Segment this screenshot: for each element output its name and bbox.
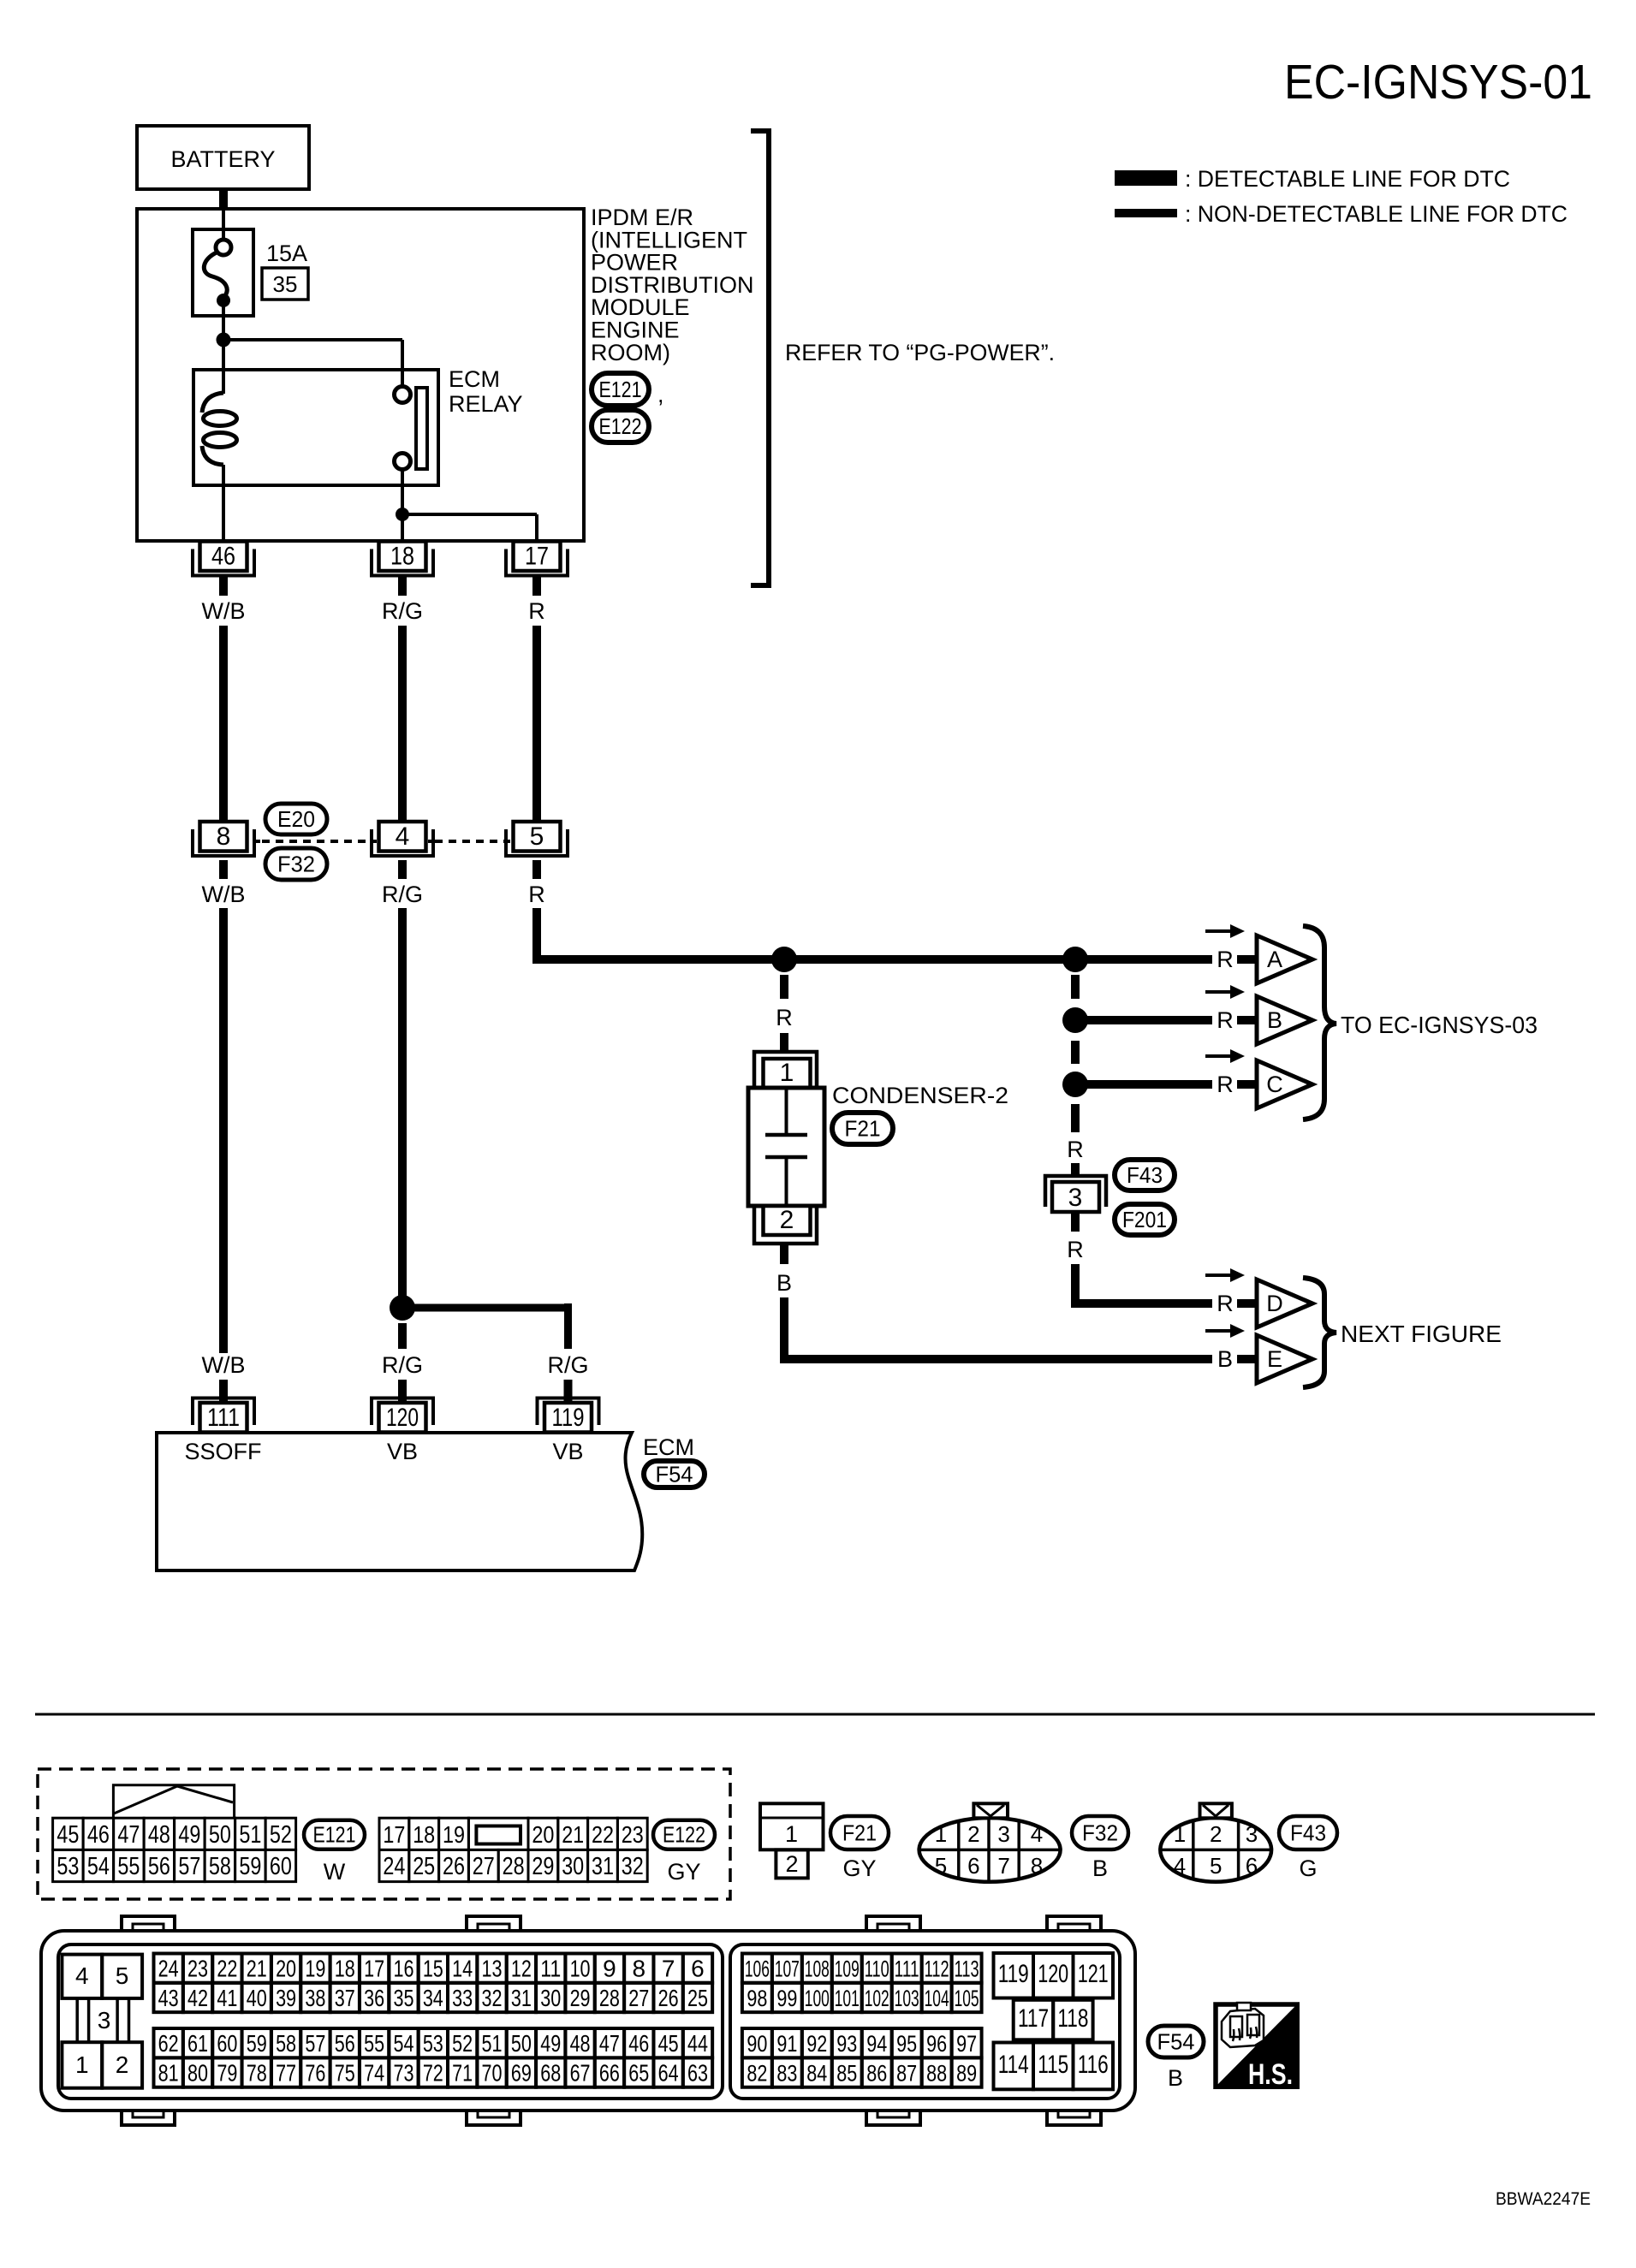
svg-text:17: 17 (525, 543, 549, 571)
brace to EC-IGNSYS-03 (1303, 926, 1336, 1119)
svg-text:32: 32 (622, 1853, 644, 1880)
svg-text:46: 46 (211, 543, 235, 571)
svg-text:54: 54 (87, 1853, 110, 1880)
svg-text:21: 21 (247, 1956, 267, 1982)
svg-text:31: 31 (592, 1853, 614, 1880)
svg-text:R/G: R/G (382, 882, 423, 907)
svg-text:46: 46 (628, 2030, 649, 2057)
svg-text:R: R (1217, 1291, 1234, 1316)
svg-text:115: 115 (1038, 2051, 1068, 2079)
wire dash R bus to node B (1071, 975, 1080, 999)
svg-text:F54: F54 (656, 1462, 693, 1487)
wire W/B pin46 to connector E20-8 (219, 626, 228, 822)
connector label E121 (304, 1820, 365, 1849)
svg-text:116: 116 (1078, 2051, 1109, 2079)
svg-text:F32: F32 (277, 852, 315, 877)
connector label F32 (265, 848, 327, 880)
relay contact top terminal (395, 387, 411, 403)
pin 17 of IPDM (506, 549, 568, 576)
svg-text:72: 72 (423, 2060, 443, 2087)
svg-text:2: 2 (1210, 1821, 1222, 1847)
svg-text:3: 3 (1068, 1184, 1083, 1212)
svg-text:2: 2 (785, 1851, 798, 1877)
connector label E122 (653, 1820, 715, 1849)
junction node R/G split (390, 1295, 415, 1321)
svg-text:W: W (324, 1859, 346, 1885)
svg-text:27: 27 (473, 1853, 495, 1880)
junction node B branch (1062, 1007, 1088, 1033)
wire coil to pin 46 (222, 465, 225, 542)
dashed connector linkage 8-4 (255, 840, 260, 843)
svg-text:20: 20 (532, 1821, 554, 1848)
svg-text:35: 35 (273, 271, 298, 297)
svg-text:41: 41 (217, 1985, 237, 2011)
svg-text:7: 7 (997, 1853, 1009, 1879)
svg-text:58: 58 (209, 1853, 231, 1880)
wire down to relay contact (401, 340, 404, 388)
svg-text:20: 20 (276, 1956, 296, 1982)
svg-text:G: G (1299, 1855, 1317, 1881)
svg-text:4: 4 (1174, 1853, 1186, 1879)
svg-text:78: 78 (247, 2060, 267, 2087)
svg-text:ECM: ECM (643, 1434, 694, 1460)
F43 keyway notch (1200, 1803, 1232, 1818)
wire junction to relay contact (horizontal) (223, 338, 402, 341)
svg-text:59: 59 (247, 2030, 267, 2057)
svg-text:W/B: W/B (202, 882, 246, 907)
wire stub into ECM pin (219, 1380, 228, 1404)
svg-text:ECM: ECM (449, 366, 500, 392)
ECM connector inner housing right (730, 1944, 1120, 2099)
svg-text:80: 80 (187, 2060, 208, 2087)
relay coil (202, 393, 223, 413)
svg-text:81: 81 (158, 2060, 179, 2087)
svg-text:75: 75 (335, 2060, 355, 2087)
svg-text:B: B (1267, 1007, 1282, 1033)
svg-text:R: R (1217, 947, 1234, 972)
svg-text:32: 32 (482, 1985, 503, 2011)
svg-text:R/G: R/G (547, 1352, 588, 1378)
svg-text:63: 63 (687, 2060, 708, 2087)
wire dash node C down (1071, 1104, 1080, 1132)
svg-text:28: 28 (503, 1853, 525, 1880)
wire R/G pin18 to connector E20-4 (398, 626, 407, 822)
dashed connector linkage 4-5 (428, 840, 433, 843)
svg-text:8: 8 (632, 1956, 645, 1982)
svg-text:35: 35 (393, 1985, 413, 2011)
svg-text:120: 120 (386, 1404, 419, 1432)
svg-text:28: 28 (599, 1985, 620, 2011)
svg-text:26: 26 (658, 1985, 679, 2011)
svg-text:26: 26 (443, 1853, 465, 1880)
svg-text:1: 1 (75, 2051, 89, 2078)
svg-text:F21: F21 (842, 1820, 877, 1846)
wire R bus to condenser (dash) (780, 975, 788, 999)
wire R pin3 to D arrow (1071, 1264, 1080, 1308)
bracket for PG-POWER reference (751, 131, 769, 585)
svg-text:2: 2 (967, 1821, 979, 1847)
svg-text:36: 36 (364, 1985, 384, 2011)
pin 8 of E20/F32 (193, 829, 254, 856)
housing tab bottom (1047, 2109, 1101, 2125)
svg-text:TO EC-IGNSYS-03: TO EC-IGNSYS-03 (1341, 1012, 1538, 1038)
svg-text:19: 19 (305, 1956, 325, 1982)
svg-text:VB: VB (552, 1439, 583, 1464)
wire stub below pin (219, 576, 228, 596)
svg-text:25: 25 (413, 1853, 435, 1880)
svg-text:62: 62 (158, 2030, 179, 2057)
svg-text:29: 29 (570, 1985, 591, 2011)
svg-text:9: 9 (603, 1956, 616, 1982)
svg-text:85: 85 (836, 2061, 857, 2087)
housing tab bottom (122, 2109, 175, 2125)
svg-text:14: 14 (452, 1956, 473, 1982)
svg-text:73: 73 (393, 2060, 413, 2087)
svg-text:105: 105 (955, 1986, 979, 2011)
svg-text:89: 89 (956, 2061, 977, 2087)
svg-text:NEXT FIGURE: NEXT FIGURE (1341, 1321, 1502, 1347)
wire dash node B to node C (1071, 1041, 1080, 1064)
svg-text:45: 45 (57, 1821, 79, 1849)
relay contact bottom terminal (395, 454, 411, 470)
svg-text:59: 59 (239, 1853, 261, 1880)
fuse 15A (box 35) (193, 229, 253, 316)
svg-text:F54: F54 (1157, 2029, 1195, 2055)
svg-text:108: 108 (805, 1956, 830, 1982)
housing tab top (467, 1916, 521, 1933)
wire stub below condenser (780, 1244, 788, 1264)
wire stub below connector (219, 860, 228, 879)
connector label F201 (1115, 1204, 1175, 1235)
wire IPDM top to fuse (222, 209, 225, 243)
svg-text:23: 23 (622, 1821, 644, 1848)
svg-text:22: 22 (592, 1821, 614, 1848)
svg-text:12: 12 (511, 1956, 532, 1982)
junction node R bus / branch (1062, 947, 1088, 972)
svg-text:70: 70 (482, 2060, 503, 2087)
svg-text:34: 34 (423, 1985, 443, 2011)
connector label E122 (592, 410, 649, 442)
svg-text:3: 3 (1246, 1821, 1258, 1847)
svg-text:2: 2 (780, 1206, 794, 1234)
housing tab bottom (467, 2109, 521, 2125)
pin 111 of ECM (193, 1398, 254, 1426)
svg-text:F43: F43 (1127, 1162, 1163, 1188)
wire B condenser to E arrow (780, 1297, 788, 1363)
svg-text:B: B (776, 1270, 792, 1296)
svg-text:7: 7 (662, 1956, 675, 1982)
svg-text:74: 74 (364, 2060, 384, 2087)
svg-text:84: 84 (806, 2061, 827, 2087)
svg-text:92: 92 (806, 2031, 827, 2057)
svg-text:24: 24 (158, 1956, 179, 1982)
svg-text:79: 79 (217, 2060, 237, 2087)
pin 46 of IPDM (193, 549, 254, 576)
wire fuse to relay coil (222, 300, 225, 394)
pin 4 of E20/F32 (372, 829, 433, 856)
wire stub below connector (398, 860, 407, 879)
svg-text:5: 5 (1210, 1853, 1222, 1879)
svg-text:D: D (1266, 1291, 1283, 1316)
connector label F21 (830, 1816, 889, 1849)
wire R node C to arrow C (1086, 1080, 1212, 1089)
svg-text:50: 50 (209, 1821, 231, 1849)
svg-text:25: 25 (687, 1985, 708, 2011)
svg-text:GY: GY (667, 1859, 700, 1885)
svg-text:39: 39 (276, 1985, 296, 2011)
housing tab top (1047, 1916, 1101, 1933)
svg-text:119: 119 (552, 1404, 585, 1432)
IPDM E/R module box (137, 209, 584, 541)
svg-text:21: 21 (562, 1821, 584, 1848)
svg-text:100: 100 (805, 1986, 830, 2011)
svg-text:61: 61 (187, 2030, 208, 2057)
pin 5 of E20/F32 (506, 829, 568, 856)
svg-text:101: 101 (835, 1986, 860, 2011)
svg-text:82: 82 (747, 2061, 767, 2087)
svg-text:53: 53 (423, 2030, 443, 2057)
wire stub below pin (532, 576, 541, 596)
svg-text:117: 117 (1018, 2004, 1049, 2033)
relay contact bar (416, 388, 427, 469)
svg-text:119: 119 (998, 1960, 1029, 1988)
svg-text:50: 50 (511, 2030, 532, 2057)
svg-text:57: 57 (305, 2030, 325, 2057)
svg-text:90: 90 (747, 2031, 767, 2057)
wire stub to connector D (1237, 1299, 1257, 1308)
svg-text:60: 60 (270, 1853, 292, 1880)
off-page connector B (1257, 996, 1312, 1044)
connector label F43 (1279, 1816, 1337, 1849)
svg-text:VB: VB (387, 1439, 418, 1464)
svg-text:121: 121 (1078, 1960, 1109, 1988)
svg-text:93: 93 (836, 2031, 857, 2057)
svg-text:10: 10 (570, 1956, 591, 1982)
wire stub into ECM pin (564, 1380, 573, 1404)
wire stub to condenser pin 1 (780, 1033, 788, 1053)
svg-text:R/G: R/G (382, 598, 423, 624)
ECM module box (157, 1433, 642, 1570)
arrow mark above connector E (1205, 1329, 1230, 1333)
svg-text:ROOM): ROOM) (591, 340, 670, 365)
ECM connector face pin grid middle (742, 1954, 772, 1983)
svg-text:96: 96 (926, 2031, 947, 2057)
svg-text:19: 19 (443, 1821, 465, 1848)
svg-text:22: 22 (217, 1956, 237, 1982)
separator line (35, 1713, 1595, 1716)
svg-text:99: 99 (776, 1986, 797, 2011)
svg-text:4: 4 (1031, 1821, 1043, 1847)
svg-text:57: 57 (178, 1853, 200, 1880)
svg-text:8: 8 (217, 822, 231, 851)
svg-text:R/G: R/G (382, 1352, 423, 1378)
svg-text:110: 110 (865, 1956, 889, 1982)
svg-text:52: 52 (452, 2030, 473, 2057)
svg-text:44: 44 (687, 2030, 708, 2057)
pin 3 bracket of F43/F201 (1045, 1176, 1106, 1207)
battery BATTERY (137, 126, 309, 189)
svg-text:R: R (528, 598, 545, 624)
wire stub below pin (398, 576, 407, 596)
svg-text:F201: F201 (1122, 1207, 1167, 1232)
arrow mark above connector D (1205, 1274, 1230, 1277)
svg-text:94: 94 (866, 2031, 887, 2057)
svg-text:47: 47 (117, 1821, 140, 1849)
svg-text:E122: E122 (599, 413, 642, 439)
svg-text:F32: F32 (1082, 1820, 1118, 1846)
svg-text:102: 102 (865, 1986, 889, 2011)
pin 119 of ECM (538, 1398, 599, 1426)
svg-text:37: 37 (335, 1985, 355, 2011)
connector label F54 (1148, 2026, 1204, 2057)
svg-text:71: 71 (452, 2060, 473, 2087)
svg-text:49: 49 (540, 2030, 561, 2057)
relay ECM RELAY box (193, 370, 438, 485)
svg-text:23: 23 (187, 1956, 208, 1982)
svg-text:BATTERY: BATTERY (170, 146, 275, 172)
housing tab top (866, 1916, 920, 1933)
pin 120 of ECM (372, 1398, 433, 1426)
wire stub into ECM pin (398, 1380, 407, 1404)
ECM connector face pin grid left (154, 1954, 183, 1983)
svg-text:27: 27 (628, 1985, 649, 2011)
svg-text:49: 49 (178, 1821, 200, 1849)
svg-text:30: 30 (540, 1985, 561, 2011)
svg-text:18: 18 (413, 1821, 435, 1848)
svg-text:56: 56 (335, 2030, 355, 2057)
svg-text:56: 56 (148, 1853, 170, 1880)
connector label F54 (644, 1461, 705, 1487)
svg-text:38: 38 (305, 1985, 325, 2011)
svg-text:54: 54 (393, 2030, 413, 2057)
connector face E121 pin grid (53, 1818, 84, 1849)
svg-text:45: 45 (658, 2030, 679, 2057)
svg-text:24: 24 (383, 1853, 405, 1880)
ECM connector inner housing left (58, 1944, 723, 2099)
svg-text:R: R (1217, 1007, 1234, 1033)
E121 connector keyway roof (113, 1785, 234, 1819)
svg-text:58: 58 (276, 2030, 296, 2057)
off-page connector E (1257, 1335, 1312, 1383)
svg-text:86: 86 (866, 2061, 887, 2087)
svg-text:106: 106 (745, 1956, 770, 1982)
svg-text:8: 8 (1031, 1853, 1043, 1879)
svg-text:: DETECTABLE LINE FOR DTC: : DETECTABLE LINE FOR DTC (1185, 166, 1510, 192)
wire stub to connector A (1237, 955, 1257, 964)
svg-text:REFER TO “PG-POWER”.: REFER TO “PG-POWER”. (785, 340, 1055, 365)
svg-text:B: B (1092, 1855, 1108, 1881)
svg-text:47: 47 (599, 2030, 620, 2057)
svg-text:16: 16 (393, 1956, 413, 1982)
svg-text:33: 33 (452, 1985, 473, 2011)
svg-text:C: C (1266, 1072, 1283, 1097)
svg-text:83: 83 (776, 2061, 797, 2087)
svg-text:BBWA2247E: BBWA2247E (1496, 2189, 1591, 2209)
wire R pin17 to connector E20-5 (532, 626, 541, 822)
svg-text:17: 17 (383, 1821, 405, 1848)
svg-text:B: B (1217, 1346, 1233, 1372)
pin 18 of IPDM (372, 549, 433, 576)
svg-text:6: 6 (1246, 1853, 1258, 1879)
svg-text:118: 118 (1057, 2004, 1088, 2033)
svg-text:4: 4 (75, 1962, 89, 1989)
svg-text:112: 112 (925, 1956, 949, 1982)
svg-text:65: 65 (628, 2060, 649, 2087)
svg-text:55: 55 (364, 2030, 384, 2057)
svg-text:H.S.: H.S. (1248, 2058, 1293, 2091)
svg-text:6: 6 (691, 1956, 705, 1982)
wire stub to connector E (1237, 1355, 1257, 1363)
svg-text:114: 114 (998, 2051, 1029, 2079)
legend non-detectable line sample (1115, 209, 1177, 217)
junction node R bus / condenser (771, 947, 797, 972)
svg-text:66: 66 (599, 2060, 620, 2087)
svg-text:69: 69 (511, 2060, 532, 2087)
svg-text:67: 67 (570, 2060, 591, 2087)
svg-text:RELAY: RELAY (449, 391, 523, 417)
arrow mark above connector B (1205, 990, 1230, 994)
svg-text:E121: E121 (313, 1822, 356, 1848)
svg-text:95: 95 (896, 2031, 917, 2057)
svg-text:E20: E20 (277, 806, 315, 832)
svg-text:51: 51 (239, 1821, 261, 1849)
svg-text:98: 98 (747, 1986, 767, 2011)
svg-text:E122: E122 (663, 1822, 705, 1848)
wire R down to main R bus (532, 908, 541, 964)
wire battery to IPDM (thick W) (219, 187, 228, 211)
svg-text:EC-IGNSYS-01: EC-IGNSYS-01 (1284, 55, 1592, 110)
svg-text:SSOFF: SSOFF (184, 1439, 261, 1464)
connector label F43 (1115, 1160, 1175, 1190)
svg-text:15: 15 (423, 1956, 443, 1982)
wire W/B down to ECM 111 (219, 908, 228, 1353)
svg-text:40: 40 (247, 1985, 267, 2011)
wire relay output down (401, 470, 404, 542)
svg-text:30: 30 (562, 1853, 584, 1880)
svg-text:51: 51 (482, 2030, 503, 2057)
arrow mark above connector C (1205, 1054, 1230, 1058)
ECM connector pins 4 5 3 1 2 group (62, 1955, 102, 1998)
svg-text:E: E (1267, 1346, 1282, 1372)
wire main R bus horizontal (532, 955, 1212, 964)
condenser pin 1 bracket (754, 1052, 817, 1088)
svg-text:11: 11 (540, 1956, 561, 1982)
wire R/G down to junction (398, 908, 407, 1297)
svg-text:R: R (776, 1005, 793, 1030)
wire R node B to arrow B (1086, 1016, 1212, 1024)
svg-text:E121: E121 (599, 377, 642, 402)
condenser pin 1 box (764, 1059, 811, 1088)
wire junction to pin 17 (402, 513, 537, 516)
svg-text:R: R (1067, 1137, 1084, 1162)
svg-text:W/B: W/B (202, 1352, 246, 1378)
svg-text:R: R (1067, 1237, 1084, 1262)
svg-text:109: 109 (835, 1956, 860, 1982)
H.S. hand-symbol logo (1213, 2002, 1300, 2089)
off-page connector A (1257, 935, 1312, 983)
svg-text:15A: 15A (266, 240, 307, 266)
connector face E122 pin grid (379, 1818, 409, 1849)
wire stub below connector (532, 860, 541, 879)
svg-text:91: 91 (776, 2031, 797, 2057)
svg-text:17: 17 (364, 1956, 384, 1982)
pin 3 box of F43/F201 (1052, 1182, 1099, 1212)
svg-text:113: 113 (955, 1956, 979, 1982)
off-page connector C (1257, 1060, 1312, 1108)
wire stub to connector B (1237, 1016, 1257, 1024)
condenser pin 2 bracket (754, 1206, 817, 1244)
svg-text:: NON-DETECTABLE LINE FOR DTC: : NON-DETECTABLE LINE FOR DTC (1185, 201, 1568, 227)
